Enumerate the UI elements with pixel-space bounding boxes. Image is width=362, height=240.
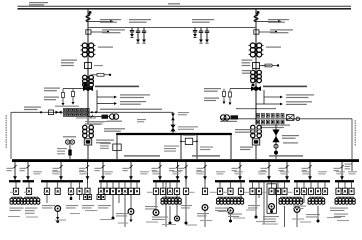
dot below motor bar3 — [56, 220, 59, 223]
label feeder left — [20, 168, 27, 171]
label bus tie — [183, 135, 195, 136]
label bar5 a — [145, 206, 158, 210]
switch jog — [59, 165, 62, 168]
label below left fuse row 2 — [85, 121, 107, 124]
wire feeder drop x=186 — [185, 159, 187, 180]
wire pass-through connector x=205 — [204, 180, 206, 183]
label unit transformer left — [96, 140, 114, 144]
wire long auxiliary line left — [11, 111, 173, 113]
load breaker box x=220 — [217, 182, 222, 194]
aux feeder incoming left of bus — [67, 152, 69, 154]
load breaker box x=113 — [110, 182, 115, 194]
bus tie breaker box — [180, 138, 198, 144]
load breaker box x=311 — [308, 182, 313, 194]
label feeder left — [7, 168, 14, 171]
label under fuse row — [260, 125, 290, 129]
wire feeder drop x=287 — [286, 159, 288, 180]
wire feeder drop x=240 — [239, 159, 241, 180]
label generator G1 — [107, 121, 122, 122]
label feeder left — [197, 168, 204, 171]
right tap A — [229, 89, 232, 106]
motor M x=131 — [128, 209, 134, 215]
switch jog — [285, 165, 288, 168]
load breaker box x=170 — [167, 182, 172, 194]
node MCC bus 294-330 — [294, 180, 330, 182]
motor M x=177 — [175, 216, 180, 221]
wire load tail x=264 — [263, 182, 265, 224]
load breaker box x=205 — [202, 182, 207, 194]
label transfer switch — [178, 112, 189, 115]
fuse cluster bar6 — [216, 197, 243, 204]
load breaker box x=351.5 — [349, 182, 354, 194]
wire load tail x=318 — [317, 206, 320, 223]
label generator G1 b — [88, 121, 104, 125]
wire load tail x=284.5 — [284, 206, 286, 227]
bottom text rows extra — [8, 210, 349, 226]
label aux right 2 — [286, 101, 312, 105]
junction node bowtie switch — [83, 84, 93, 91]
label aux tap 2 — [120, 101, 146, 105]
label tap changer left — [242, 60, 253, 67]
right tap B — [223, 89, 226, 105]
wire load tail x=256 — [255, 195, 258, 219]
label emergency feeder — [282, 135, 299, 139]
node MCC bus 99-140 — [99, 180, 140, 182]
emergency feeder right mid — [272, 124, 279, 159]
feeder labels above bars — [33, 171, 357, 174]
label aux right line — [236, 108, 276, 109]
breaker mark — [257, 11, 260, 13]
enclosure rectangle — [267, 184, 276, 214]
contact triangle — [158, 176, 162, 180]
fuse cluster bar9 — [335, 197, 355, 204]
load breaker box x=29 — [26, 182, 31, 194]
label right end stub — [345, 164, 352, 170]
switch jog — [158, 165, 161, 168]
wire load tail x=166 — [165, 182, 167, 227]
wire load tail x=230.5 — [229, 213, 232, 222]
unit transformer left windings — [83, 125, 94, 137]
label feeder left — [302, 168, 309, 171]
label pass 186 — [181, 205, 192, 209]
node MCC bus 335-354 — [335, 180, 354, 182]
contact triangle — [267, 176, 271, 180]
label right of tap box — [262, 65, 271, 66]
label bar5 b — [152, 217, 168, 221]
aux tap arrow right 2 — [256, 103, 283, 106]
label right of tap box — [94, 65, 103, 66]
wire junction right branch to arresters — [230, 88, 251, 90]
aux tap arrow 2 — [97, 102, 117, 105]
label feeder left — [279, 168, 286, 171]
label tie left top — [104, 128, 125, 132]
switch jog — [267, 165, 270, 168]
spare feeder incoming above bus left — [65, 140, 74, 159]
label external grid — [29, 2, 48, 5]
label spare feeder — [63, 136, 76, 137]
unit transformer right windings — [251, 91, 262, 138]
capacitor bank group — [130, 28, 146, 44]
wire load tail x=205 — [204, 210, 206, 227]
label main bus right section — [269, 155, 303, 156]
wire feeder drop x=61 — [60, 159, 62, 180]
load breaker box x=107 — [104, 182, 109, 194]
label transfer switch 2 — [178, 126, 198, 130]
contact triangle — [203, 176, 207, 180]
generator G1 branch — [88, 91, 119, 125]
label capacitor bank — [192, 19, 214, 23]
wire load tail x=186 — [185, 195, 188, 225]
fuse row on left aux line — [40, 110, 62, 115]
contact triangle — [176, 176, 180, 180]
label below tie 2 — [200, 147, 213, 151]
breaker mark — [89, 11, 92, 13]
labels row below boxes — [10, 192, 347, 193]
wire load tail x=47 — [46, 195, 48, 204]
motor M x=271.5 — [269, 204, 275, 210]
wire feeder drop x=269 — [268, 159, 270, 180]
wire feeder drop x=131 — [130, 159, 132, 180]
label feeder left — [152, 168, 159, 171]
wire load tail x=304 — [303, 195, 305, 204]
label bar7 b — [263, 216, 279, 222]
contact triangle — [129, 176, 133, 180]
node external grid bus upper line — [18, 5, 352, 7]
station service tap A — [62, 89, 65, 106]
wire aux vertical right — [263, 90, 265, 104]
label bar3 a — [42, 205, 55, 209]
paired contactor boxes x=101 — [97, 194, 105, 199]
load breaker box x=230.5 — [228, 182, 233, 194]
label secondary left — [242, 70, 252, 74]
wire load tail x=79.5 — [79, 195, 81, 201]
wire feeder drop x=310 — [309, 159, 311, 180]
load breaker box x=119 — [116, 182, 121, 194]
transformer secondary winding — [83, 69, 94, 87]
label aux tap 1 — [120, 94, 150, 98]
load breaker box x=87.5 — [85, 182, 90, 194]
junction node bowtie switch — [251, 84, 261, 91]
contact triangle — [26, 176, 30, 180]
wire bus tie upper line — [117, 133, 231, 135]
motor M x=205 — [202, 205, 208, 211]
load breaker box x=137 — [134, 182, 139, 194]
label feeder left — [123, 168, 130, 171]
label bar8 b — [306, 214, 320, 218]
node MCC bus 9-20.5 — [9, 180, 21, 182]
load breaker box x=338.5 — [336, 182, 341, 194]
wire upper tie line between feeders — [88, 27, 256, 29]
wire feeder drop x=342 — [341, 159, 343, 180]
wire load tail x=119 — [118, 195, 120, 204]
contact triangle — [285, 176, 289, 180]
label above left fuse row — [55, 106, 79, 107]
wire left riser to main bus — [10, 112, 12, 159]
wire feeder drop x=177.5 — [176, 159, 178, 180]
wire feeder drop x=205 — [204, 159, 206, 180]
wire feeder drop x=103 — [102, 159, 104, 180]
label feeder left — [178, 168, 185, 171]
wire aux vertical left — [96, 90, 98, 112]
label feeder left — [95, 168, 102, 171]
inductor coil on feeder — [254, 14, 258, 22]
contact triangle — [238, 176, 242, 180]
disconnect box on feeder — [254, 30, 259, 34]
tie breaker left box — [113, 144, 121, 151]
capacitor bank group — [193, 28, 209, 44]
wire feeder drop x=160 — [159, 159, 161, 180]
fuse bank row right — [257, 114, 285, 124]
label emergency feeder 2 — [283, 142, 298, 143]
tap changer box — [253, 63, 260, 69]
wire between windings — [255, 57, 257, 63]
contact triangle — [13, 176, 17, 180]
bus tie loop right leg — [196, 134, 198, 159]
load breaker box x=252.5 — [250, 182, 255, 194]
label unit transformer right — [240, 147, 253, 151]
switch jog — [308, 165, 311, 168]
tap changer box — [85, 63, 92, 69]
wire right feeder drop from top bus — [255, 9, 257, 87]
wire between windings — [87, 57, 89, 63]
load breaker box x=177 — [174, 182, 179, 194]
breaker box with X right — [287, 115, 295, 121]
wire load tail x=156 — [155, 195, 157, 210]
load breaker box x=79.5 — [77, 182, 82, 194]
switch jog — [26, 165, 29, 168]
blob below motor enclosure — [270, 210, 273, 213]
load breaker box x=304 — [301, 182, 306, 194]
motor M x=297 — [294, 207, 300, 213]
label right taps 2 — [204, 98, 219, 102]
wire load tail x=57.7 — [56, 211, 59, 219]
label aux right 1 — [286, 94, 314, 98]
label bar9 b — [334, 214, 348, 218]
label arrester — [100, 19, 121, 23]
unit transformer left LV box — [84, 139, 91, 159]
wire pass-through connector x=87.5 — [87, 180, 89, 183]
wire load tail x=259 — [258, 195, 260, 199]
stub with terminal dot — [91, 31, 109, 33]
load breaker box x=278 — [275, 182, 280, 194]
label tap changer left — [61, 60, 77, 67]
label feeder left — [232, 168, 239, 171]
label feeder left — [169, 168, 176, 171]
switch jog — [101, 165, 104, 168]
label taps left 2 — [44, 97, 59, 101]
label vertical right riser — [355, 120, 357, 146]
neutral grounding resistor stub — [92, 73, 112, 76]
stub to surge arrester with arrow — [256, 20, 282, 23]
fuse cluster bar2 — [23, 197, 40, 204]
wire load tail x=131 — [130, 195, 132, 209]
label bar6 — [215, 208, 229, 212]
load breaker box x=297 — [294, 182, 299, 194]
label right taps — [204, 88, 221, 92]
label bar8 a — [293, 206, 306, 210]
load breaker box x=131 — [128, 182, 133, 194]
label bar6 b — [228, 214, 242, 218]
node MCC bus 249-290 — [249, 180, 290, 182]
label feeder left — [334, 168, 341, 171]
wire load tail x=125 — [124, 195, 126, 228]
label transformer rating — [266, 47, 281, 48]
load breaker box x=71 — [68, 182, 73, 194]
label bar7 a — [248, 205, 260, 209]
wire right riser to main bus — [351, 119, 353, 159]
load breaker box x=156 — [153, 182, 158, 194]
label feeder left — [79, 168, 86, 171]
label below tie 1 — [164, 146, 179, 152]
label bar3 b — [66, 205, 78, 209]
switch jog — [340, 165, 343, 168]
switch jog — [176, 165, 179, 168]
label aux line mid — [100, 109, 162, 110]
label generator G2 — [220, 121, 237, 122]
load breaker box x=259 — [256, 182, 261, 194]
stub to surge arrester with arrow — [88, 20, 114, 23]
small fuse bar3 x71 — [70, 195, 72, 201]
label capacitor bank — [129, 19, 151, 23]
label feeder left — [261, 168, 268, 171]
node MCC bus 215-245 — [215, 180, 245, 182]
label tie right — [235, 129, 261, 133]
contact triangle — [59, 176, 63, 180]
wire load tail x=297 — [296, 212, 298, 227]
label below left fuse row — [76, 117, 96, 118]
fuse cluster bar5 — [161, 197, 181, 204]
inductor coil on feeder — [86, 14, 90, 22]
transfer switch diamond — [170, 125, 175, 132]
aux tap arrow 1 — [97, 96, 117, 99]
load breaker box x=318 — [315, 182, 320, 194]
stub with terminal dot — [259, 31, 277, 33]
label tie breaker left — [100, 143, 111, 149]
contact triangle — [101, 176, 105, 180]
feed from aux line to tie — [171, 112, 175, 134]
node main switchgear bus — [12, 159, 359, 162]
load breaker box x=186 — [183, 182, 188, 194]
label bar1 — [10, 208, 24, 212]
label bar4 a — [98, 205, 111, 209]
switch jog — [129, 165, 132, 168]
contact triangle — [308, 176, 312, 180]
wire pass-through connector x=186 — [185, 180, 187, 183]
label main bus left section — [124, 155, 160, 156]
motor M x=156 — [153, 210, 159, 216]
aux tap arrow right 1 — [264, 96, 283, 99]
motor M x=57.7 — [55, 206, 61, 212]
switch jog — [184, 165, 187, 168]
label transformer rating — [98, 47, 113, 48]
wire main top bus lower line — [18, 8, 352, 10]
switch jog — [238, 165, 241, 168]
paired fuse boxes left aux line — [64, 108, 98, 116]
transformer secondary winding — [251, 69, 262, 87]
load breaker box x=163 — [160, 182, 165, 194]
label taps left — [44, 88, 60, 92]
arrow below motor bar4 — [129, 220, 132, 223]
wire feeder drop x=87.5 — [86, 159, 88, 180]
load breaker box x=47 — [44, 182, 49, 194]
wire tie right riser — [230, 134, 232, 159]
label feeder left — [53, 168, 60, 171]
node MCC bus 153-180 — [153, 180, 180, 182]
wire below motor bar4 — [130, 214, 132, 219]
neutral grounding resistor stub — [260, 64, 280, 67]
load breaker box x=125 — [122, 182, 127, 194]
node MCC bus 22.6-34 — [23, 180, 34, 182]
label main bus mid section — [192, 155, 220, 156]
label pass 205 — [197, 213, 209, 217]
switch jog — [86, 165, 89, 168]
label bar9 — [330, 208, 348, 212]
motor M x=230.5 — [228, 208, 234, 214]
small meter circle right — [296, 117, 300, 121]
disconnect box on feeder — [86, 30, 91, 34]
wire load tail x=113 — [112, 195, 115, 220]
load breaker box x=345 — [342, 182, 347, 194]
label spare feeder left — [57, 148, 67, 154]
wire feeder drop x=15 — [14, 159, 16, 180]
label transformer bus name — [95, 86, 139, 88]
station service tap B — [72, 89, 75, 105]
load breaker box x=16 — [13, 182, 18, 194]
label arrester — [268, 19, 289, 23]
label pass 87 — [82, 205, 94, 209]
wire junction left branch — [63, 88, 84, 90]
wire load tail x=241 — [240, 195, 242, 201]
label disconnect — [270, 29, 293, 33]
wire left feeder drop from top bus — [87, 9, 89, 87]
load breaker box x=271.5 — [269, 182, 274, 194]
label aux line left end — [24, 107, 41, 111]
wire feeder drop x=28 — [27, 159, 29, 180]
label top bus center — [168, 3, 180, 4]
wire tie left riser — [116, 134, 118, 159]
contact triangle — [86, 176, 90, 180]
load breaker box x=241 — [238, 182, 243, 194]
wire load tail x=170 — [169, 206, 172, 225]
load breaker box x=284.5 — [282, 182, 287, 194]
fuse cluster bar1 — [10, 197, 24, 204]
transformer T1 primary winding — [81, 43, 96, 57]
generator G2 — [221, 115, 239, 120]
paired contactor boxes x=87.5 — [84, 194, 92, 199]
contact triangle — [184, 176, 188, 180]
label vertical left riser — [6, 115, 8, 148]
node MCC bus 41-83 — [41, 180, 83, 182]
label mid aux — [137, 119, 146, 122]
wire right end stub drop — [351, 159, 353, 171]
wire load tail x=177 — [176, 195, 178, 216]
load breaker box x=101 — [98, 182, 103, 194]
wire long auxiliary line right — [220, 118, 352, 120]
fuse cluster bar7 — [279, 197, 303, 204]
bus tie loop left leg — [180, 134, 182, 159]
label bar2 — [25, 208, 37, 214]
load breaker box x=325 — [322, 182, 327, 194]
tie corner dots — [116, 133, 232, 135]
load breaker box x=57.7 — [55, 182, 60, 194]
contact triangle — [340, 176, 344, 180]
label transformer bus name — [263, 86, 307, 88]
switch jog — [13, 165, 16, 168]
label bar4 b — [116, 213, 130, 217]
switch jog — [203, 165, 206, 168]
fuse cluster bar8 — [308, 197, 325, 204]
unit transformer right LV box — [252, 139, 259, 159]
